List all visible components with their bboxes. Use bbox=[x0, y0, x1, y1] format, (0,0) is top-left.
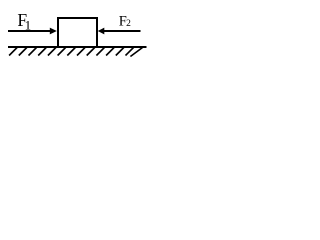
force arrow F2 (pointing left into block) bbox=[98, 28, 141, 35]
ground hatching bbox=[9, 48, 142, 57]
ground surface line bbox=[8, 46, 147, 48]
svg-text:1: 1 bbox=[25, 17, 32, 32]
force arrow F1 (pointing right into block) bbox=[8, 28, 57, 35]
block on surface bbox=[58, 18, 97, 47]
svg-text:2: 2 bbox=[126, 19, 131, 29]
